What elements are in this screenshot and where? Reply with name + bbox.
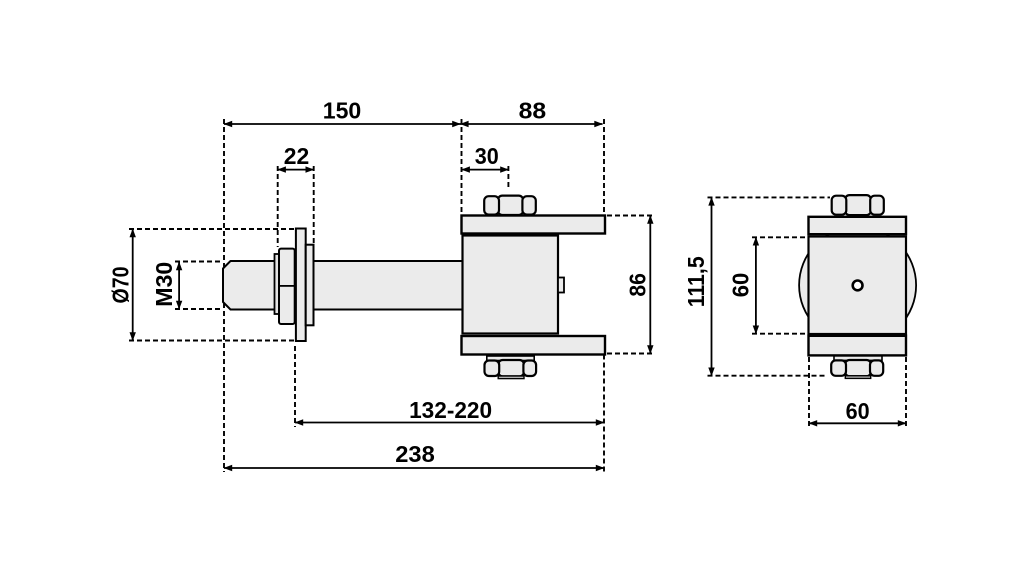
dashed extension line y=340.5 (Ø70 bottom) bbox=[129, 340, 296, 342]
dimension 132-220 bbox=[295, 422, 604, 424]
bottom thread stub (front view) bbox=[845, 376, 870, 379]
dimension 60 vertical bbox=[755, 237, 757, 333]
top bolt head (front view) bbox=[832, 195, 884, 215]
dashed extension line x=604 upper (88 right) bbox=[603, 119, 605, 215]
center hole bbox=[853, 281, 863, 291]
svg-text:60: 60 bbox=[846, 398, 870, 424]
dashed extension line y=215.5 (86 top) bbox=[607, 215, 655, 217]
dashed extension line y=309 (M30 bottom) bbox=[175, 308, 222, 310]
dashed extension line x=277.7 (22 left) bbox=[277, 166, 279, 247]
bottom mounting plate (side view) bbox=[462, 336, 606, 355]
dimension M30 bbox=[178, 262, 180, 309]
top mounting plate (side view) bbox=[462, 216, 606, 234]
bottom washer (front view) bbox=[834, 356, 882, 361]
dimension 30 bbox=[462, 169, 509, 171]
dimension 238 bbox=[224, 467, 604, 469]
bottom washer (side view) bbox=[487, 356, 534, 361]
svg-text:M30: M30 bbox=[151, 262, 177, 307]
dashed extension line y=237.3 (60 vertical top) bbox=[752, 236, 808, 238]
dashed extension line x=461.5 (150/88 junction, 30 left) bbox=[461, 119, 463, 215]
nut facet split line bbox=[280, 285, 295, 287]
dimension 86 bbox=[649, 216, 651, 354]
svg-text:60: 60 bbox=[728, 273, 754, 298]
svg-text:22: 22 bbox=[284, 143, 310, 169]
top mounting bar (front view) bbox=[809, 217, 907, 234]
bottom mounting bar (front view) bbox=[809, 336, 907, 356]
top bolt head (side view) bbox=[484, 196, 536, 215]
adjusting hex nut (side view) bbox=[279, 249, 295, 324]
dashed extension line y=197.4 (111,5 top) bbox=[708, 196, 831, 198]
svg-text:88: 88 bbox=[519, 98, 547, 124]
pin on body right face bbox=[558, 278, 564, 293]
svg-text:150: 150 bbox=[323, 98, 362, 124]
dashed extension line x=295 (132-220 left) bbox=[294, 346, 296, 427]
dimension 22 bbox=[278, 169, 314, 171]
bottom hex nut (side view) bbox=[485, 360, 537, 376]
dashed extension line y=261.5 (M30 top) bbox=[175, 261, 222, 263]
big washer disc Ø70 bbox=[296, 229, 306, 342]
bottom hex nut (front view) bbox=[831, 360, 883, 376]
dashed extension line x=508.4 (30 right, bolt axis) bbox=[507, 166, 509, 190]
dashed extension line x=224 (left bound 150/238) bbox=[223, 119, 225, 472]
svg-text:238: 238 bbox=[395, 441, 435, 467]
washer disc (front view, behind body) bbox=[799, 227, 916, 344]
dashed extension line y=375.7 (111,5 bottom) bbox=[708, 375, 828, 377]
dashed extension line x=313.7 (22 right) bbox=[313, 166, 315, 243]
dashed extension line y=229 (Ø70 top) bbox=[129, 228, 296, 230]
svg-text:111,5: 111,5 bbox=[683, 256, 709, 307]
svg-text:86: 86 bbox=[624, 273, 650, 297]
dimension 111,5 bbox=[711, 197, 713, 375]
dimension Ø70 bbox=[132, 229, 134, 341]
dashed extension line y=353.5 (86 bottom) bbox=[607, 353, 655, 355]
threaded rod M30 (side view) bbox=[223, 261, 464, 310]
dimension 60 horizontal bbox=[809, 422, 906, 424]
hinge body (front view) bbox=[809, 237, 907, 335]
dashed extension line x=604 lower (238/132-220 right) bbox=[603, 355, 605, 473]
dimension 150 bbox=[224, 123, 461, 125]
svg-text:30: 30 bbox=[475, 143, 499, 169]
svg-text:132-220: 132-220 bbox=[409, 397, 492, 423]
dimension 88 bbox=[460, 123, 602, 125]
bottom thread stub bbox=[498, 376, 524, 379]
hinge body block (side view) bbox=[463, 236, 559, 334]
adjusting nut collar bbox=[275, 254, 281, 314]
svg-text:Ø70: Ø70 bbox=[107, 267, 133, 304]
dashed extension line y=333.7 (60 vertical bottom) bbox=[752, 333, 808, 335]
small spacer washer bbox=[306, 245, 314, 326]
dashed extension line x=809 (60 bottom left) bbox=[808, 357, 810, 428]
dashed extension line x=906 (60 bottom right) bbox=[905, 357, 907, 428]
